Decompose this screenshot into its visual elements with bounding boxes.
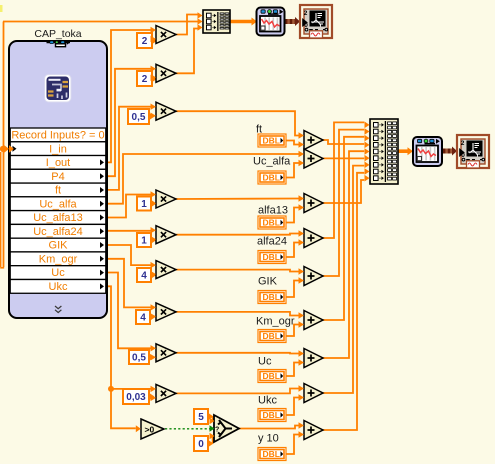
wire Merge A to waveform chart 1 [230, 18, 257, 26]
wire DBL Uc to add A7 [286, 363, 299, 377]
add A4 (alfa24 offset) [299, 229, 324, 248]
subVI terminal row ft [10, 183, 106, 197]
wire DBL Uc_alfa to add A2 [286, 163, 299, 178]
wire A3 (alfa13) to Merge B input 9 [323, 180, 364, 203]
svg-text:DBL: DBL [263, 252, 280, 262]
add A8 (Ukc offset) [299, 384, 324, 403]
subVI CAP_toka body [9, 41, 107, 318]
label Km_ogr [256, 316, 295, 328]
multiply M5 (Uc_alfa24 x1) [151, 226, 177, 244]
DBL control Uc [258, 370, 286, 383]
merge signals B (9 inputs) [365, 119, 399, 184]
svg-text:1: 1 [141, 199, 147, 210]
subVI terminal row Ukc [10, 280, 106, 294]
svg-text:4: 4 [140, 313, 146, 324]
svg-text:2: 2 [142, 74, 148, 85]
wire DBL ft to add A1 [286, 141, 299, 145]
wire A5 (GIK) to Merge B input 2 [323, 130, 364, 276]
svg-text:0,03: 0,03 [126, 392, 146, 403]
svg-text:0,5: 0,5 [132, 112, 146, 123]
wire constant 5 to Select t-input [212, 417, 214, 422]
svg-text:DBL: DBL [263, 331, 280, 341]
svg-text:>0: >0 [145, 425, 155, 435]
svg-text:2: 2 [304, 10, 308, 17]
svg-text:Record Inputs? = 0: Record Inputs? = 0 [11, 130, 104, 142]
add A3 (alfa13 offset) [299, 194, 324, 213]
label GIK [258, 276, 278, 288]
wire A6 (Km_ogr) to Merge B input 3 [323, 137, 364, 320]
add A5 (GIK offset) [299, 267, 324, 286]
wire A8 (Ukc) to Merge B input 7 [323, 166, 364, 393]
svg-text:DBL: DBL [263, 136, 280, 146]
wire I_out to multiply M1 [107, 30, 151, 162]
svg-text:DBL: DBL [263, 410, 280, 420]
constant 0,5 (for M8) [129, 350, 155, 364]
wire ft to multiply M3 [107, 107, 151, 190]
wire I_in double arrow into subVI [4, 145, 14, 153]
wire DBL GIK to add A5 [286, 281, 299, 298]
wire Select to add A9 (y10) [239, 426, 299, 429]
svg-text:alfa24: alfa24 [257, 236, 287, 248]
svg-text:5: 5 [198, 412, 204, 423]
svg-text:alfa13: alfa13 [258, 205, 288, 217]
svg-text:0: 0 [198, 439, 204, 450]
wire A9 (y10) to Merge B input 8 [323, 173, 364, 430]
wire Merge B to waveform chart 2 [398, 147, 413, 155]
junction dot on Ukc wire [108, 386, 114, 392]
label Uc_alfa [253, 156, 291, 168]
svg-text:I_out: I_out [46, 157, 70, 169]
waveform chart 2 [413, 137, 442, 166]
add A9 (y10 offset) [299, 421, 324, 440]
add A6 (Km_ogr offset) [299, 311, 324, 330]
svg-text:CAP_toka: CAP_toka [34, 28, 81, 40]
multiply M3 (ft x0,5) [151, 102, 177, 120]
wire M4 to add A3 (alfa13) [176, 198, 299, 201]
constant 0,5 (for M3) [128, 109, 155, 124]
wire DBL y10 to add A9 [286, 435, 299, 455]
wire M3 to add A1 (ft) [176, 111, 299, 135]
wire M5 to add A4 (alfa24) [176, 234, 299, 235]
wire P4 to multiply M2 [107, 69, 151, 176]
constant 4 (for M6) [137, 268, 157, 282]
wire boolean comparator to Select (green dashed) [165, 426, 214, 431]
subVI terminal row Km_ogr [10, 252, 106, 266]
svg-text:Uc_alfa: Uc_alfa [39, 198, 77, 210]
add A2 (Uc_alfa offset) [299, 149, 324, 168]
svg-text:1: 1 [141, 236, 147, 247]
svg-text:GIK: GIK [258, 276, 278, 288]
wire M7 to add A6 (Km_ogr) [176, 312, 299, 316]
svg-text:Km_ogr: Km_ogr [39, 253, 78, 265]
wire DBL Km_ogr to add A6 [286, 325, 299, 337]
svg-text:Ukc: Ukc [258, 395, 277, 407]
wire M9 to add A8 (Ukc) [176, 389, 299, 394]
svg-text:DBL: DBL [263, 449, 280, 459]
multiply M9 (Ukc x0,03) [151, 384, 177, 402]
label Uc [258, 356, 272, 368]
constant 0 (Select false) [194, 436, 214, 451]
svg-text:P4: P4 [51, 171, 64, 183]
svg-text:0,5: 0,5 [132, 353, 146, 364]
DBL control y10 [258, 448, 286, 461]
svg-text:2: 2 [142, 36, 148, 47]
select node [210, 415, 240, 442]
wire Ukc to multiply M9 and comparator [107, 286, 151, 428]
DBL control Uc_alfa [258, 171, 286, 184]
svg-text:2: 2 [461, 140, 465, 147]
subVI terminal row Record Inputs? = 0 [10, 128, 106, 142]
subVI terminal row I_in [10, 142, 106, 156]
DBL control GIK [258, 291, 286, 304]
wire DBL Ukc to add A8 [286, 398, 299, 416]
multiply M7 (Km_ogr x4) [151, 303, 177, 321]
express VI Write File 1 [300, 5, 332, 38]
wire chart 1 to Write File 1 (dynamic data) [285, 17, 300, 26]
subVI terminal row GIK [10, 238, 106, 252]
junction dot on I_in wire [0, 146, 6, 152]
label Ukc [258, 395, 277, 407]
wire Uc to multiply M8 [107, 273, 151, 349]
constant 1 (for M4) [137, 197, 157, 211]
svg-text:y 10: y 10 [258, 433, 279, 445]
svg-text:GIK: GIK [49, 240, 69, 252]
label ft [256, 124, 262, 136]
subVI footer chevron [55, 306, 61, 313]
svg-text:DBL: DBL [263, 292, 280, 302]
multiply M1 (I_out x2) [151, 26, 177, 44]
label alfa24 [257, 236, 287, 248]
wire DBL alfa24 to add A4 [286, 243, 299, 258]
add A1 (ft offset) [299, 131, 324, 150]
wire GIK to multiply M6 [107, 245, 151, 265]
svg-text:DBL: DBL [263, 371, 280, 381]
comparator greater-than-zero [136, 419, 164, 439]
label y 10 [258, 433, 279, 445]
multiply M2 (P4 x2) [151, 64, 177, 82]
wire Uc_alfa24 to multiply M5 [107, 230, 151, 232]
express VI Write File 2 [457, 135, 489, 168]
svg-text:Uc_alfa24: Uc_alfa24 [33, 226, 83, 238]
multiply M8 (Uc x0,5) [151, 344, 177, 362]
DBL control alfa24 [258, 251, 286, 264]
DBL control Km_ogr [258, 330, 286, 343]
label alfa13 [258, 205, 288, 217]
multiply M4 (Uc_alfa13 x1) [151, 190, 177, 208]
constant 2 (for M1) [137, 33, 158, 48]
wire A7 (Uc) to Merge B input 5 [323, 151, 364, 358]
svg-text:DBL: DBL [263, 218, 280, 228]
wire constant 0 to Select f-input [212, 436, 214, 444]
wire A1 (ft) to Merge B input 4 [323, 140, 364, 144]
svg-text:ft: ft [55, 185, 61, 197]
wire DBL alfa13 to add A3 [286, 208, 299, 223]
multiply M6 (GIK x4) [151, 261, 177, 279]
svg-text:?: ? [215, 427, 219, 434]
wire chart 2 to Write File 2 (dynamic data) [443, 147, 457, 156]
wire M1 to Merge A input 1 [176, 15, 199, 35]
wire top long horizontal to Merge Signals A input 2 [3, 21, 199, 23]
constant 1 (for M5) [137, 233, 157, 247]
subVI CAP_toka icon [45, 75, 72, 103]
subVI terminal row Uc [10, 266, 106, 280]
constant 0,03 (for M9) [123, 389, 155, 404]
svg-text:I_in: I_in [49, 143, 67, 155]
subVI CAP_toka label [34, 28, 81, 40]
svg-text:Ukc: Ukc [49, 281, 68, 293]
svg-text:4: 4 [141, 271, 147, 282]
wire Uc_alfa13 to multiply M4 [107, 195, 151, 218]
waveform chart 1 [257, 8, 285, 36]
svg-text:Uc_alfa13: Uc_alfa13 [33, 212, 83, 224]
subVI terminal row Uc_alfa13 [10, 211, 106, 225]
subVI chart-style banner decoration [47, 40, 71, 46]
DBL control ft [258, 134, 286, 147]
wire M2 to Merge A input 3 [176, 29, 199, 74]
wire A4 (alfa24) to Merge B input 1 [323, 122, 364, 238]
DBL control alfa13 [258, 216, 286, 229]
svg-text:Uc: Uc [51, 267, 65, 279]
wire Km_ogr to multiply M7 [107, 259, 151, 308]
svg-text:DBL: DBL [263, 173, 280, 183]
constant 5 (Select true) [194, 409, 214, 424]
clipped yellow label fragment top-left [0, 5, 3, 12]
subVI terminal row I_out [10, 156, 106, 170]
constant 2 (for M2) [137, 71, 158, 86]
wire M8 to add A7 (Uc) [176, 352, 299, 355]
constant 4 (for M7) [136, 310, 156, 324]
svg-text:Uc: Uc [258, 356, 272, 368]
add A7 (Uc offset) [299, 349, 324, 368]
wire A2 (Uc_alfa) to Merge B input 6 [323, 157, 364, 159]
wire M6 to add A5 (GIK) [176, 270, 299, 272]
wire left loop vertical (I_in feedback) [0, 22, 4, 268]
merge signals A (3 inputs) [198, 10, 231, 33]
subVI terminal row P4 [10, 169, 106, 183]
DBL control Ukc [258, 409, 286, 422]
wire Uc_alfa to add A2 [107, 154, 299, 204]
subVI terminal row Uc_alfa [10, 197, 106, 211]
svg-text:Km_ogr: Km_ogr [256, 316, 295, 328]
subVI terminal row Uc_alfa24 [10, 224, 106, 238]
svg-text:Uc_alfa: Uc_alfa [253, 156, 291, 168]
